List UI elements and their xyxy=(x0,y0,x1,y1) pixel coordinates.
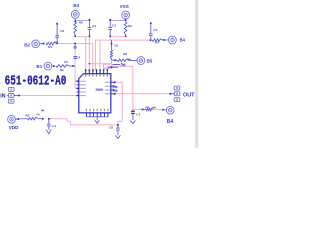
svg-text:651-0612-A0: 651-0612-A0 xyxy=(5,74,67,89)
svg-text:C1: C1 xyxy=(52,124,56,128)
svg-text:B2: B2 xyxy=(24,43,30,48)
svg-text:C6: C6 xyxy=(64,60,68,64)
svg-text:C4: C4 xyxy=(76,55,80,59)
svg-text:OUT: OUT xyxy=(183,92,195,98)
svg-text:R6: R6 xyxy=(79,20,83,24)
svg-text:R3: R3 xyxy=(128,24,132,28)
svg-text:C3: C3 xyxy=(60,29,64,33)
svg-text:VSS: VSS xyxy=(120,4,129,9)
svg-text:B1: B1 xyxy=(36,64,42,69)
svg-text:R8: R8 xyxy=(123,52,127,56)
svg-text:R5: R5 xyxy=(25,114,29,118)
svg-text:C8: C8 xyxy=(114,44,118,48)
svg-text:IN: IN xyxy=(0,94,5,100)
svg-text:C3: C3 xyxy=(112,23,116,27)
svg-text:C7: C7 xyxy=(136,113,140,117)
svg-text:C8: C8 xyxy=(109,126,113,130)
svg-text:C2: C2 xyxy=(54,40,58,44)
svg-text:VDD: VDD xyxy=(9,125,19,130)
svg-text:B4: B4 xyxy=(167,119,174,125)
svg-text:R7: R7 xyxy=(145,106,149,110)
svg-text:C5: C5 xyxy=(153,28,157,32)
svg-text:B3: B3 xyxy=(73,3,79,8)
svg-text:R4: R4 xyxy=(155,40,159,44)
svg-text:R2: R2 xyxy=(60,68,64,72)
svg-text:B4: B4 xyxy=(180,38,186,43)
svg-text:C5: C5 xyxy=(92,24,96,28)
svg-text:B5: B5 xyxy=(147,59,153,64)
svg-text:R1: R1 xyxy=(48,45,52,49)
